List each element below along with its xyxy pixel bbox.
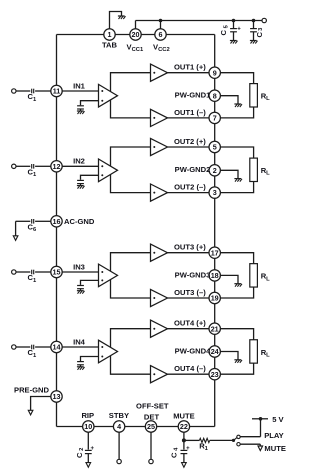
svg-text:13: 13 xyxy=(53,392,61,401)
svg-text:+: + xyxy=(91,446,95,452)
svg-text:6: 6 xyxy=(159,30,163,39)
svg-text:3: 3 xyxy=(213,188,217,197)
svg-text:OUT2 (+): OUT2 (+) xyxy=(174,137,206,146)
svg-text:OUT3 (–): OUT3 (–) xyxy=(174,288,206,297)
svg-text:11: 11 xyxy=(53,87,61,96)
svg-text:12: 12 xyxy=(53,162,61,171)
svg-text:RL: RL xyxy=(261,166,270,177)
svg-text:TAB: TAB xyxy=(102,41,118,50)
svg-text:C1: C1 xyxy=(28,168,37,179)
svg-text:3: 3 xyxy=(258,27,264,31)
svg-text:PW-GND4: PW-GND4 xyxy=(175,346,211,355)
svg-text:C1: C1 xyxy=(28,92,37,103)
svg-text:19: 19 xyxy=(211,294,219,303)
svg-text:2: 2 xyxy=(213,166,217,175)
svg-text:16: 16 xyxy=(53,217,61,226)
svg-text:PRE-GND: PRE-GND xyxy=(14,385,50,394)
svg-text:IN2: IN2 xyxy=(73,157,85,166)
svg-text:OUT3 (+): OUT3 (+) xyxy=(174,243,206,252)
svg-text:RL: RL xyxy=(261,272,270,283)
svg-text:VCC2: VCC2 xyxy=(153,42,170,53)
svg-text:OUT2 (–): OUT2 (–) xyxy=(174,183,206,192)
svg-text:OUT4 (+): OUT4 (+) xyxy=(174,319,206,328)
svg-text:5: 5 xyxy=(223,24,229,28)
svg-text:OUT1 (+): OUT1 (+) xyxy=(174,63,206,72)
svg-text:9: 9 xyxy=(213,68,217,77)
svg-text:+: + xyxy=(237,27,241,33)
svg-text:IN3: IN3 xyxy=(73,262,85,271)
svg-text:8: 8 xyxy=(213,91,217,100)
svg-text:14: 14 xyxy=(53,343,61,352)
svg-text:VCC1: VCC1 xyxy=(127,42,144,53)
svg-text:21: 21 xyxy=(211,324,219,333)
svg-text:4: 4 xyxy=(173,447,179,451)
svg-text:24: 24 xyxy=(211,347,219,356)
svg-text:4: 4 xyxy=(117,422,121,431)
svg-text:MUTE: MUTE xyxy=(173,411,195,420)
svg-text:25: 25 xyxy=(147,422,155,431)
svg-text:C6: C6 xyxy=(28,223,37,234)
svg-text:MUTE: MUTE xyxy=(264,444,286,453)
svg-text:C: C xyxy=(75,452,84,458)
svg-text:15: 15 xyxy=(53,268,61,277)
svg-text:7: 7 xyxy=(213,114,217,123)
svg-text:C: C xyxy=(255,32,264,38)
svg-text:RL: RL xyxy=(261,92,270,103)
svg-text:20: 20 xyxy=(132,30,140,39)
svg-text:+: + xyxy=(186,446,190,452)
svg-text:C: C xyxy=(219,30,228,36)
svg-text:PW-GND2: PW-GND2 xyxy=(175,165,211,174)
svg-text:17: 17 xyxy=(211,248,219,257)
svg-text:PW-GND1: PW-GND1 xyxy=(175,91,211,100)
svg-text:RIP: RIP xyxy=(81,411,94,420)
svg-text:OFF-SET: OFF-SET xyxy=(136,401,169,410)
svg-text:PLAY: PLAY xyxy=(264,431,284,440)
svg-text:C: C xyxy=(170,452,179,458)
svg-text:C1: C1 xyxy=(28,273,37,284)
svg-text:5: 5 xyxy=(213,143,217,152)
svg-text:R1: R1 xyxy=(199,441,208,452)
svg-text:IN1: IN1 xyxy=(73,81,86,90)
svg-text:OUT4 (–): OUT4 (–) xyxy=(174,364,206,373)
svg-text:22: 22 xyxy=(180,422,188,431)
svg-text:PW-GND3: PW-GND3 xyxy=(175,270,211,279)
svg-text:IN4: IN4 xyxy=(73,337,86,346)
svg-text:23: 23 xyxy=(211,370,219,379)
svg-text:AC-GND: AC-GND xyxy=(64,217,95,226)
svg-text:DET: DET xyxy=(144,412,160,421)
svg-text:C1: C1 xyxy=(28,348,37,359)
svg-text:2: 2 xyxy=(79,448,85,451)
svg-text:10: 10 xyxy=(84,422,92,431)
svg-text:RL: RL xyxy=(261,348,270,359)
svg-text:18: 18 xyxy=(211,271,219,280)
svg-text:STBY: STBY xyxy=(109,411,129,420)
svg-text:OUT1 (–): OUT1 (–) xyxy=(174,108,206,117)
svg-text:5 V: 5 V xyxy=(272,415,284,424)
svg-text:1: 1 xyxy=(108,30,112,39)
